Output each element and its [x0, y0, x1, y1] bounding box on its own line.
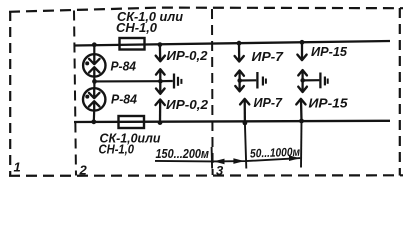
svg-text:50...1000м: 50...1000м [250, 145, 301, 161]
spark gap ИР-0,2 (top wire tap arrow) [156, 42, 165, 61]
arrester Р-84 (top) [83, 54, 105, 76]
zone divider 1|2 [74, 11, 76, 176]
dimension arrow (right, at ИР-15 line) [289, 155, 300, 161]
ground electrode (ИР-15 column) [298, 70, 327, 92]
dashed zone boundary (outer) [9, 8, 403, 176]
svg-text:1: 1 [14, 160, 21, 175]
zone divider 2|3 [211, 9, 214, 175]
svg-text:3: 3 [216, 163, 224, 178]
spark gap ИР-7 (top wire tap arrow) [235, 41, 244, 62]
wire: ground bus to ИР-0,2 electrode [95, 80, 161, 82]
ground electrode (ИР-0,2 column) [156, 69, 181, 94]
svg-text:ИР-7: ИР-7 [252, 49, 284, 64]
wire between arresters / node to ground bus [92, 76, 97, 88]
node: top wire to arrester P-84 [92, 42, 97, 54]
svg-text:ИР-0,2: ИР-0,2 [166, 98, 208, 112]
fuse F2 (СК-1,0 / СН-1,0, bottom) [119, 116, 145, 128]
spark gap ИР-0,2 (bottom wire tap arrow) [156, 100, 165, 126]
wire: top broadcast line [74, 41, 390, 46]
dimension line [155, 158, 300, 161]
svg-text:ИР-15: ИР-15 [309, 95, 349, 110]
spark gap ИР-15 (bottom wire tap arrow) [296, 99, 305, 124]
svg-text:ИР-15: ИР-15 [311, 44, 348, 59]
label СК-1,0или / СН-1,0 (bottom) [99, 132, 161, 157]
svg-text:ИР-7: ИР-7 [254, 95, 283, 110]
fuse F1 (СК-1,0 / СН-1,0, top) [120, 38, 145, 50]
svg-text:2: 2 [79, 163, 88, 178]
svg-text:150...200м: 150...200м [156, 147, 210, 161]
svg-text:СН-1,0: СН-1,0 [116, 21, 157, 35]
dimension extension line at ИР-15 [300, 121, 303, 168]
dimension extension line at ИР-7 [245, 123, 246, 169]
svg-text:Р-84: Р-84 [111, 59, 137, 73]
svg-text:ИР-0,2: ИР-0,2 [167, 49, 208, 63]
wire: bottom broadcast line [74, 121, 390, 122]
svg-text:СН-1,0: СН-1,0 [99, 143, 135, 157]
svg-text:Р-84: Р-84 [111, 92, 137, 106]
label СК-1,0 или / СН-1,0 (top) [116, 10, 183, 35]
ground electrode (ИР-7 column) [235, 71, 266, 92]
arrester Р-84 (bottom) [83, 88, 105, 110]
dimension arrow (left, at divider 3) [214, 159, 225, 165]
dimension tick at divider 3 [211, 147, 214, 169]
spark gap ИР-7 (bottom wire tap arrow) [240, 99, 249, 125]
spark gap ИР-15 (top wire tap arrow) [297, 40, 306, 60]
node: arrester P-84 to bottom wire [91, 111, 96, 125]
dimension arrow (right, at ИР-7 line) [233, 158, 244, 164]
